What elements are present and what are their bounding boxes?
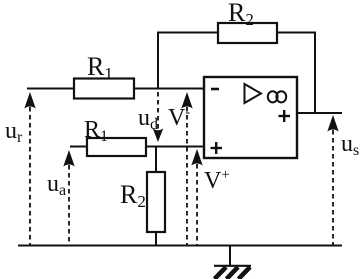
op-amp inverting pin marker (-) xyxy=(211,88,219,91)
wire: output xyxy=(297,112,342,114)
op-amp infinity gain symbol xyxy=(268,91,286,102)
voltage arrow u_d xyxy=(153,92,163,142)
wire: feedback top horizontal xyxy=(158,32,315,34)
wire: ground stub xyxy=(229,245,231,266)
wire: non-inverting input (lower) xyxy=(70,146,204,148)
op-amp output plus marker (+) xyxy=(279,110,291,122)
voltage arrow V- xyxy=(181,92,192,245)
ground symbol xyxy=(214,266,251,279)
voltage arrow V+ xyxy=(191,149,202,245)
op-amp U1 body xyxy=(204,77,297,158)
wire: bottom ground bus xyxy=(18,245,342,247)
voltage arrow u_s xyxy=(327,115,338,245)
resistor R2 (grounding) xyxy=(147,172,165,232)
voltage arrow u_r xyxy=(24,92,35,245)
wire: feedback left vertical xyxy=(157,32,159,90)
wire: R2 grounding top lead xyxy=(155,146,157,173)
op-amp triangle symbol xyxy=(245,84,262,103)
wire: R2 grounding bottom lead xyxy=(155,231,157,246)
resistor R1 (lower) xyxy=(87,138,146,156)
wire: feedback right vertical xyxy=(314,32,316,114)
resistor R2 (feedback) xyxy=(218,23,277,43)
resistor R1 (upper) xyxy=(74,79,134,99)
voltage arrow u_a xyxy=(63,150,74,245)
op-amp non-inverting pin marker (+) xyxy=(211,142,223,154)
wire: inverting input (upper) xyxy=(27,88,204,90)
